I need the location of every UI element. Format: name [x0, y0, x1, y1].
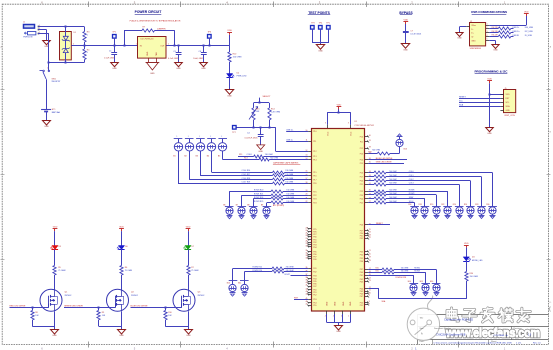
svg-text:740 OHM: 740 OHM — [265, 154, 273, 156]
svg-text:P34: P34 — [313, 247, 316, 249]
svg-text:740 OHM: 740 OHM — [389, 193, 397, 195]
svg-text:TP3: TP3 — [311, 23, 315, 25]
svg-text:TEST POINTS: TEST POINTS — [308, 11, 330, 15]
svg-text:0.1uF, 0603: 0.1uF, 0603 — [410, 34, 422, 36]
svg-text:22: 22 — [369, 237, 371, 239]
svg-text:41: 41 — [305, 285, 307, 287]
svg-text:ISSP_CON: ISSP_CON — [504, 115, 515, 117]
svg-text:8: 8 — [325, 122, 326, 124]
svg-text:4: 4 — [487, 35, 488, 37]
svg-text:740 OHM: 740 OHM — [389, 171, 397, 173]
svg-text:R12: R12 — [368, 152, 371, 154]
svg-text:44: 44 — [305, 293, 307, 295]
svg-text:B8: B8 — [247, 205, 249, 207]
svg-text:20: 20 — [369, 253, 371, 255]
svg-text:COL5 R17: COL5 R17 — [242, 174, 251, 176]
svg-text:P43: P43 — [360, 281, 363, 283]
svg-text:P10: P10 — [313, 131, 316, 133]
svg-text:P12: P12 — [360, 148, 363, 150]
svg-text:B6: B6 — [223, 205, 225, 207]
svg-text:R24: R24 — [453, 204, 456, 206]
svg-text:2: 2 — [487, 27, 488, 29]
svg-text:GND: GND — [343, 301, 345, 306]
svg-text:R22: R22 — [441, 204, 444, 206]
svg-text:B14: B14 — [408, 281, 411, 283]
svg-text:39: 39 — [369, 140, 371, 142]
svg-text:4: 4 — [325, 316, 326, 318]
svg-text:GND: GND — [150, 73, 155, 75]
svg-text:COL3: COL3 — [409, 183, 414, 185]
svg-text:0.1uF, 0805: 0.1uF, 0805 — [168, 58, 180, 60]
svg-text:P35: P35 — [360, 258, 363, 260]
svg-text:2N7002: 2N7002 — [65, 295, 72, 297]
svg-text:P40: P40 — [313, 259, 316, 261]
svg-text:740 OHM: 740 OHM — [389, 189, 397, 191]
svg-text:B11: B11 — [238, 283, 241, 285]
svg-text:R25: R25 — [376, 271, 379, 273]
svg-text:B13: B13 — [404, 149, 407, 151]
svg-text:P26: P26 — [360, 225, 363, 227]
svg-text:4: 4 — [348, 316, 349, 318]
svg-text:19: 19 — [369, 257, 371, 259]
svg-text:COL8: COL8 — [247, 154, 252, 156]
svg-text:Date:: Date: — [420, 340, 425, 343]
svg-text:GND: GND — [336, 331, 341, 333]
svg-text:1.0uF, 0805: 1.0uF, 0805 — [104, 58, 116, 60]
svg-text:R8: R8 — [35, 312, 37, 314]
svg-text:CY8CLED04-48PVXI: CY8CLED04-48PVXI — [354, 125, 374, 127]
svg-text:P23: P23 — [313, 199, 316, 201]
svg-text:P20: P20 — [313, 183, 316, 185]
svg-text:7: 7 — [369, 304, 370, 306]
svg-text:CAPSENSE CAPS MATRIX: CAPSENSE CAPS MATRIX — [273, 161, 299, 164]
svg-text:740 OHM: 740 OHM — [389, 175, 397, 177]
svg-text:Revision: Revision — [514, 328, 522, 330]
svg-text:1: 1 — [136, 44, 137, 46]
svg-text:GND: GND — [112, 68, 117, 70]
svg-text:BATT-AA: BATT-AA — [52, 111, 61, 114]
svg-text:R7: R7 — [191, 267, 193, 269]
svg-text:B10: B10 — [227, 283, 230, 285]
svg-text:ROW8: ROW8 — [414, 271, 420, 273]
svg-text:P40: P40 — [360, 272, 363, 274]
svg-text:P12: P12 — [313, 151, 316, 153]
svg-text:P47: P47 — [313, 286, 316, 288]
svg-text:0.047uF, 0805: 0.047uF, 0805 — [245, 137, 259, 139]
svg-text:R18: R18 — [419, 204, 422, 206]
svg-text:P34: P34 — [360, 255, 363, 257]
svg-text:ROW3 R25: ROW3 R25 — [254, 201, 263, 203]
svg-text:740 OHM: 740 OHM — [286, 266, 294, 268]
svg-text:P13: P13 — [360, 153, 363, 155]
svg-text:GND: GND — [201, 68, 206, 70]
svg-text:GND: GND — [186, 335, 191, 337]
svg-text:P22: P22 — [360, 191, 363, 193]
svg-text:P37: P37 — [360, 269, 363, 271]
svg-text:GND: GND — [493, 50, 498, 52]
svg-text:VDD: VDD — [227, 30, 232, 32]
svg-text:P53: P53 — [313, 299, 316, 301]
svg-text:POWER CIRCUIT: POWER CIRCUIT — [135, 10, 162, 14]
svg-text:34: 34 — [305, 258, 307, 260]
svg-text:P14: P14 — [360, 159, 363, 161]
svg-text:Sheet: Sheet — [491, 340, 497, 343]
svg-text:Rev 1.0: Rev 1.0 — [533, 342, 541, 344]
svg-text:740 OHM: 740 OHM — [286, 197, 294, 199]
svg-text:B15: B15 — [420, 281, 423, 283]
svg-text:740 OHM: 740 OHM — [286, 270, 294, 272]
svg-text:B9: B9 — [261, 205, 263, 207]
svg-text:SCLK: SCLK — [409, 201, 415, 203]
svg-text:GND: GND — [335, 301, 337, 306]
svg-text:VDD: VDD — [464, 243, 469, 245]
svg-text:B5: B5 — [218, 156, 220, 158]
svg-text:10uF, 0805: 10uF, 0805 — [193, 58, 204, 60]
svg-text:ROW10 R28: ROW10 R28 — [396, 277, 406, 279]
svg-text:B16: B16 — [430, 281, 433, 283]
svg-text:13: 13 — [369, 280, 371, 282]
svg-text:P33: P33 — [360, 251, 363, 253]
svg-text:150 OHM: 150 OHM — [233, 56, 242, 58]
svg-text:COL2: COL2 — [409, 179, 414, 181]
svg-text:DM_USB: DM_USB — [525, 27, 534, 29]
svg-text:CY8CMBR - A: CY8CMBR - A — [494, 334, 509, 337]
svg-text:P13: P13 — [313, 156, 316, 158]
svg-text:21: 21 — [369, 250, 371, 252]
svg-text:USB MINI-B: USB MINI-B — [470, 48, 482, 50]
svg-text:26: 26 — [305, 235, 307, 237]
svg-text:2N7002: 2N7002 — [131, 295, 138, 297]
svg-text:GND: GND — [487, 133, 492, 135]
svg-text:P15: P15 — [313, 172, 316, 174]
svg-text:D7: D7 — [192, 246, 194, 248]
svg-text:PWRCON: PWRCON — [23, 37, 33, 39]
svg-text:ROW0 R20: ROW0 R20 — [254, 190, 263, 192]
svg-text:R20: R20 — [430, 204, 433, 206]
svg-text:VCC: VCC — [328, 131, 330, 136]
svg-text:PROGRAMMING & I2C: PROGRAMMING & I2C — [474, 70, 508, 74]
svg-text:P42: P42 — [313, 272, 316, 274]
svg-text:1: 1 — [487, 23, 488, 25]
svg-text:740 OHM: 740 OHM — [372, 149, 380, 151]
svg-text:R6 22E: R6 22E — [492, 27, 499, 29]
svg-text:GND: GND — [227, 96, 232, 98]
svg-text:ROW2 R24: ROW2 R24 — [254, 197, 263, 199]
svg-text:B3: B3 — [196, 156, 198, 158]
svg-text:R28: R28 — [475, 204, 478, 206]
svg-text:P24: P24 — [313, 202, 316, 204]
svg-text:2N7002: 2N7002 — [198, 295, 205, 297]
svg-text:VCC: VCC — [350, 131, 352, 136]
svg-text:GND: GND — [52, 335, 57, 337]
svg-text:GND: GND — [258, 151, 263, 153]
svg-text:SDA: SDA — [459, 103, 464, 106]
svg-text:B1: B1 — [173, 156, 175, 158]
svg-text:740 OHM: 740 OHM — [401, 271, 409, 273]
svg-text:GND: GND — [327, 301, 329, 306]
svg-text:MODE_LED: MODE_LED — [472, 260, 483, 262]
svg-text:P21: P21 — [360, 184, 363, 186]
svg-text:TP5: TP5 — [326, 23, 330, 25]
svg-text:P21: P21 — [313, 191, 316, 193]
svg-text:PWR_LED: PWR_LED — [237, 76, 247, 78]
svg-text:740 OHM: 740 OHM — [285, 178, 293, 180]
svg-text:R26: R26 — [464, 204, 467, 206]
svg-text:COL4 R16: COL4 R16 — [242, 170, 251, 172]
svg-text:CY8C20x34 CapSense RGB: CY8C20x34 CapSense RGB — [436, 335, 466, 337]
svg-text:P47: P47 — [360, 296, 363, 298]
svg-text:0: 0 — [87, 34, 88, 36]
svg-text:D-: D- — [471, 29, 473, 31]
svg-text:GND: GND — [403, 50, 408, 52]
svg-text:D6: D6 — [125, 246, 127, 248]
svg-text:P23: P23 — [360, 195, 363, 197]
svg-text:P10: P10 — [360, 136, 363, 138]
svg-text:9: 9 — [369, 295, 370, 297]
svg-text:P15: P15 — [360, 163, 363, 165]
svg-text:740 OHM: 740 OHM — [389, 183, 397, 185]
svg-text:GND: GND — [457, 38, 462, 40]
svg-text:740 OHM: 740 OHM — [285, 182, 293, 184]
svg-text:P17: P17 — [360, 177, 363, 179]
svg-text:B7: B7 — [236, 205, 238, 207]
svg-text:Capsense with RGB LED: Capsense with RGB LED — [444, 318, 473, 322]
svg-text:COL6 R18: COL6 R18 — [242, 178, 251, 180]
svg-text:B2: B2 — [184, 156, 186, 158]
svg-text:GND: GND — [147, 51, 149, 56]
svg-text:740 OHM: 740 OHM — [389, 201, 397, 203]
svg-text:ROW8: ROW8 — [409, 189, 415, 191]
svg-text:ROW5 R26: ROW5 R26 — [253, 270, 262, 272]
svg-text:GND: GND — [350, 301, 352, 306]
svg-text:P25: P25 — [360, 202, 363, 204]
svg-text:740 OHM: 740 OHM — [286, 201, 294, 203]
svg-text:P41: P41 — [313, 268, 316, 270]
svg-text:ROW1 R21: ROW1 R21 — [254, 193, 263, 195]
svg-text:GND: GND — [318, 51, 323, 53]
svg-text:740 OHM: 740 OHM — [389, 197, 397, 199]
svg-text:740 OHM: 740 OHM — [286, 190, 294, 192]
svg-text:COL0: COL0 — [409, 171, 414, 173]
svg-text:740 OHM: 740 OHM — [270, 158, 278, 160]
svg-text:R6 22E: R6 22E — [492, 31, 499, 33]
svg-text:ROW9: ROW9 — [409, 193, 415, 195]
svg-text:www.elecfans.com: www.elecfans.com — [445, 326, 540, 340]
svg-text:R13: R13 — [244, 158, 248, 160]
svg-text:Document Number: Document Number — [434, 327, 451, 330]
svg-text:P51: P51 — [360, 305, 363, 307]
svg-text:GND: GND — [471, 40, 476, 42]
svg-text:P17: P17 — [313, 179, 316, 181]
svg-text:150 OHM: 150 OHM — [470, 276, 479, 278]
svg-text:5: 5 — [487, 39, 488, 41]
svg-text:VBus: VBus — [471, 25, 476, 27]
svg-text:740 OHM: 740 OHM — [389, 179, 397, 181]
svg-text:P22: P22 — [313, 195, 316, 197]
svg-text:38: 38 — [369, 147, 371, 149]
svg-text:1 of 1: 1 of 1 — [516, 342, 522, 344]
svg-text:40: 40 — [369, 135, 371, 137]
svg-text:ROW7: ROW7 — [284, 274, 290, 276]
svg-text:75 OHM: 75 OHM — [125, 270, 133, 272]
svg-text:BYPASS: BYPASS — [399, 11, 413, 15]
svg-text:P41: P41 — [360, 275, 363, 277]
svg-text:C:\Documents and Settings\gjv\: C:\Documents and Settings\gjv\Desktop\CY… — [434, 341, 512, 344]
svg-text:COL7 R19: COL7 R19 — [242, 182, 251, 184]
svg-text:USB COMMUNICATIONS: USB COMMUNICATIONS — [471, 10, 507, 14]
svg-text:R11: R11 — [239, 154, 242, 156]
svg-text:1.2K OHM: 1.2K OHM — [271, 111, 280, 113]
svg-text:740 OHM: 740 OHM — [285, 174, 293, 176]
svg-text:740 OHM: 740 OHM — [285, 170, 293, 172]
svg-text:B12 (ROW3): B12 (ROW3) — [273, 205, 284, 207]
svg-text:GND: GND — [176, 68, 181, 70]
svg-text:P14: P14 — [313, 159, 316, 161]
svg-text:GND: GND — [44, 126, 49, 128]
svg-text:P11: P11 — [313, 141, 316, 143]
svg-text:USB D+: USB D+ — [512, 31, 520, 33]
svg-text:DP_USB: DP_USB — [525, 31, 533, 33]
svg-text:COL1: COL1 — [409, 175, 414, 177]
svg-text:740 OHM: 740 OHM — [286, 193, 294, 195]
svg-text:R16: R16 — [408, 204, 411, 206]
svg-text:ROW4 R22: ROW4 R22 — [253, 266, 262, 268]
svg-text:P32: P32 — [360, 238, 363, 240]
svg-text:SELECT: SELECT — [262, 96, 271, 98]
svg-text:3: 3 — [487, 31, 488, 33]
svg-text:R5: R5 — [58, 267, 60, 269]
svg-text:R10: R10 — [168, 312, 171, 314]
svg-text:USB D-: USB D- — [512, 27, 519, 29]
svg-text:ROW6: ROW6 — [414, 268, 420, 270]
svg-text:P16: P16 — [360, 173, 363, 175]
svg-text:R30: R30 — [470, 273, 474, 275]
svg-text:GND: GND — [506, 110, 511, 112]
svg-text:PLACE 0-OHM RESISTOR TO BYPASS: PLACE 0-OHM RESISTOR TO BYPASS REGULATOR — [130, 20, 181, 23]
svg-text:P24: P24 — [360, 199, 363, 201]
svg-text:R6 22E: R6 22E — [492, 35, 499, 37]
svg-text:P55: P55 — [313, 305, 316, 307]
svg-text:30: 30 — [305, 246, 307, 248]
svg-text:47: 47 — [305, 304, 307, 306]
svg-text:P52: P52 — [313, 295, 316, 297]
svg-text:75 OHM: 75 OHM — [58, 270, 66, 272]
svg-text:VDD: VDD — [506, 94, 511, 96]
svg-text:GND: GND — [119, 335, 124, 337]
svg-text:P43: P43 — [313, 275, 316, 277]
svg-text:0: 0 — [87, 52, 88, 54]
svg-text:75 OHM: 75 OHM — [191, 270, 199, 272]
svg-text:P30: P30 — [313, 236, 316, 238]
svg-text:740 OHM: 740 OHM — [401, 268, 409, 270]
svg-text:R25: R25 — [376, 268, 379, 270]
svg-text:P20: P20 — [360, 180, 363, 182]
svg-text:18: 18 — [369, 260, 371, 262]
svg-text:P11: P11 — [360, 141, 363, 143]
svg-text:R30: R30 — [486, 204, 489, 206]
svg-text:SW-SPDT: SW-SPDT — [52, 81, 62, 83]
svg-text:USB ID: USB ID — [512, 35, 519, 37]
svg-text:ID_USB: ID_USB — [525, 35, 533, 37]
svg-text:D5: D5 — [59, 246, 61, 248]
svg-text:P16: P16 — [313, 176, 316, 178]
svg-text:R9: R9 — [102, 312, 104, 314]
svg-text:R6: R6 — [125, 267, 127, 269]
svg-text:U2 LP2985-33: U2 LP2985-33 — [141, 38, 155, 40]
svg-text:P36: P36 — [360, 261, 363, 263]
